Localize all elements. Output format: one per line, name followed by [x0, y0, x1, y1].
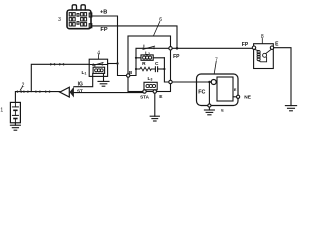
wire battery to ignition switch [15, 92, 59, 103]
svg-text:E: E [221, 109, 224, 113]
svg-text:E: E [159, 94, 163, 100]
terminal E1 [208, 104, 211, 107]
junction FC/transistor [208, 81, 210, 83]
svg-text:+B: +B [100, 9, 107, 15]
connector 3 pins [69, 13, 86, 26]
ground (EFI main relay) [98, 73, 109, 86]
ground (battery) [10, 123, 20, 130]
pump motor winding [254, 49, 271, 62]
wire relay 4 output to +B node [108, 63, 118, 65]
svg-text:3: 3 [150, 78, 152, 82]
wire ST to STA terminal [74, 92, 143, 94]
svg-text:8: 8 [261, 34, 264, 40]
relay 4 coil [93, 67, 105, 73]
coil L3 [144, 82, 157, 90]
relay 6 switch [136, 45, 169, 58]
ECU inner box [217, 77, 233, 101]
label leader 2 [20, 87, 22, 91]
svg-text:3: 3 [58, 17, 61, 23]
label leader 8 (pump) [261, 39, 263, 44]
svg-text:C: C [155, 61, 159, 67]
wire fuel pump feed [172, 47, 252, 49]
svg-text:E: E [234, 88, 237, 92]
ground (fuel pump E) [285, 106, 296, 111]
wire pump E to ground [274, 48, 291, 106]
node right (to FC) [163, 68, 165, 70]
svg-text:FP: FP [242, 42, 249, 48]
svg-text:FP: FP [173, 54, 180, 60]
svg-text:FP: FP [100, 27, 107, 33]
junction relay4/+B [116, 62, 118, 64]
ground (relay 6 E) [150, 116, 159, 121]
circuit opening relay 6 box [128, 36, 171, 92]
svg-text:FC: FC [198, 90, 205, 96]
svg-text:1: 1 [0, 107, 3, 113]
svg-text:NE: NE [244, 95, 251, 101]
relay 4 switch [89, 63, 107, 68]
svg-text:2: 2 [22, 82, 25, 88]
svg-text:STA: STA [140, 94, 150, 99]
ignition switch connector (filled triangle) [70, 87, 74, 98]
svg-text:B: B [129, 70, 133, 75]
wire branch up to EFI main relay feed [31, 64, 89, 91]
coil L2 [136, 55, 164, 60]
svg-text:6: 6 [159, 17, 162, 23]
terminal FP (relay) [169, 47, 172, 50]
label leader 7 [214, 62, 216, 74]
svg-text:IG: IG [78, 82, 83, 88]
svg-text:R: R [142, 61, 146, 67]
svg-text:2: 2 [148, 52, 150, 56]
wire transistor to E1 terminal [208, 82, 210, 104]
label leader 6 [154, 22, 160, 36]
pump terminal right [270, 46, 273, 49]
wire +B: connector 3 to node, down to relay B [92, 16, 127, 76]
terminal FC [169, 80, 172, 83]
ECU 7 box [197, 74, 239, 106]
terminal NE [233, 96, 237, 98]
ignition switch connector (open triangle) [60, 87, 70, 97]
svg-text:ST: ST [77, 89, 83, 94]
wire FP check: connector 3 to fuel pump line [92, 26, 177, 47]
fuel pump 8 box [254, 44, 274, 69]
battery 1 [10, 102, 20, 122]
svg-text:4: 4 [97, 51, 100, 57]
wire IG to EFI main relay coil [74, 73, 93, 86]
pump terminal left [252, 46, 255, 49]
svg-text:E: E [275, 41, 279, 47]
connector marks on relay feed wire [50, 63, 64, 66]
wire FC to ECU [172, 81, 209, 83]
junction FP/pump line [176, 47, 179, 50]
capacitor C [155, 67, 164, 72]
connector 3 (check connector body) [67, 5, 92, 29]
svg-text:1: 1 [84, 71, 86, 75]
EFI main relay 4 box [89, 59, 107, 76]
terminal B [127, 74, 130, 77]
label leader 4 [98, 55, 100, 60]
resistor R [136, 67, 155, 71]
ground (ECU) [204, 107, 214, 115]
svg-text:7: 7 [215, 57, 218, 63]
node left (B) [135, 57, 137, 59]
terminal STA [143, 90, 146, 93]
transistor circle [211, 80, 216, 85]
terminal E [153, 90, 156, 93]
fusible link 2 connector marks [17, 90, 50, 93]
wire E to ground [154, 93, 156, 116]
